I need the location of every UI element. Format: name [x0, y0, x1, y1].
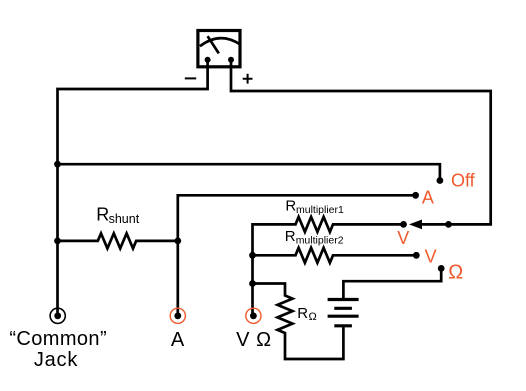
- label A jack: [171, 329, 185, 351]
- jack Common: [50, 308, 65, 323]
- resistor R-ohm with leads and bottom wire to battery: [253, 284, 344, 360]
- svg-text:Off: Off: [451, 171, 476, 191]
- svg-text:multiplier1: multiplier1: [296, 204, 344, 216]
- svg-text:R: R: [285, 197, 296, 214]
- meter movement M1: [198, 31, 241, 67]
- label ohm (switch): [448, 262, 463, 284]
- wire: meter plus terminal to right rail and wiper: [231, 60, 491, 225]
- label V-ohm jack: [236, 329, 272, 351]
- label Common Jack: [9, 328, 107, 371]
- resistor Rmultiplier1 with left branch: [253, 217, 404, 314]
- svg-text:multiplier2: multiplier2: [296, 234, 344, 246]
- switch contact V2: [413, 252, 420, 259]
- label Rmultiplier2: [285, 228, 344, 247]
- svg-text:Jack: Jack: [34, 349, 79, 371]
- wire: common rail to Off contact: [58, 164, 440, 180]
- label Rmultiplier1: [285, 197, 344, 216]
- label V (first): [397, 228, 409, 248]
- switch contact Off: [437, 177, 444, 184]
- svg-text:A: A: [171, 329, 185, 351]
- switch contact V1: [400, 221, 407, 228]
- label A (switch): [422, 188, 434, 208]
- node: left branch at multiplier2: [249, 252, 256, 259]
- label Off: [451, 171, 476, 191]
- battery B1: [328, 300, 359, 326]
- jack A: [170, 308, 185, 323]
- svg-text:A: A: [422, 188, 434, 208]
- label V (second): [425, 247, 437, 267]
- resistor Rshunt: [58, 233, 178, 248]
- svg-text:R: R: [285, 228, 296, 245]
- switch wiper arrow: [409, 220, 422, 230]
- node: left branch at ohms branch: [249, 280, 256, 287]
- switch contact A: [412, 192, 419, 199]
- svg-text:R: R: [297, 305, 308, 322]
- svg-text:V: V: [397, 228, 409, 248]
- jack V-ohm: [246, 308, 261, 323]
- label R-ohm: [297, 305, 317, 323]
- svg-text:R: R: [96, 205, 109, 225]
- svg-text:Ω: Ω: [448, 262, 463, 284]
- switch pivot junction: [445, 221, 452, 228]
- wire: battery top to ohm contact: [343, 268, 441, 299]
- svg-text:“Common”: “Common”: [9, 328, 107, 350]
- wire: meter minus terminal to common rail: [58, 60, 208, 314]
- svg-text:V: V: [425, 247, 437, 267]
- node: common rail to Off line: [54, 161, 61, 168]
- svg-text:V Ω: V Ω: [236, 329, 272, 351]
- meter minus label: [185, 77, 196, 79]
- resistor Rmultiplier2: [253, 248, 417, 263]
- svg-text:shunt: shunt: [109, 212, 140, 226]
- meter plus label: [243, 74, 253, 84]
- switch contact ohm: [438, 265, 445, 272]
- wire: A jack up and right to A contact: [178, 195, 416, 314]
- svg-text:Ω: Ω: [309, 311, 317, 323]
- node: shunt left junction: [54, 238, 61, 245]
- label Rshunt: [96, 205, 140, 226]
- node: shunt right junction: [174, 238, 181, 245]
